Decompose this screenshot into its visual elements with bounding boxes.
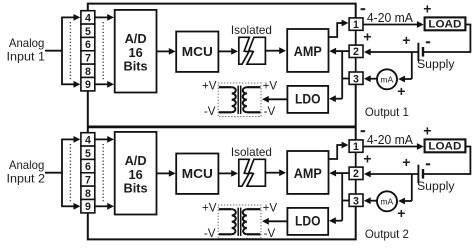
output terminal pin 3 ch2 (349, 194, 363, 208)
wire AMP output to terminal 1 ch1 (329, 23, 342, 37)
wire terminal 3 to branch ch2 (342, 200, 349, 202)
svg-text:4: 4 (85, 12, 91, 24)
svg-text:+: + (423, 122, 431, 138)
wire supply to meter ch1 (404, 78, 412, 80)
wire A/D to MCU ch1 (157, 50, 170, 52)
wire shared mid rail terminal 3 ch1 to terminal 1 ch2 (355, 85, 357, 141)
svg-text:Analog: Analog (9, 37, 45, 50)
wire input branch vertical ch2 (61, 139, 63, 206)
wire battery to terminal 2 ch2 (370, 173, 418, 175)
wire LDO to transformer ch1 (268, 98, 288, 100)
output terminal pin 2 ch2 (349, 167, 363, 180)
wire LOAD to battery ch1 (424, 25, 471, 53)
output terminal pin 1 ch1 (349, 18, 363, 31)
svg-text:8: 8 (85, 188, 91, 200)
wire terminal 1 to LOAD ch2 (363, 146, 418, 148)
wire AMP output to terminal 1 ch2 (329, 145, 342, 159)
LDO regulator block ch2 (287, 208, 328, 235)
svg-text:2: 2 (353, 168, 359, 180)
svg-text:Analog: Analog (9, 159, 45, 172)
svg-text:1: 1 (353, 141, 359, 153)
svg-text:4-20 mA: 4-20 mA (367, 133, 414, 147)
wire pin4 to A/D ch1 (95, 16, 108, 18)
input terminal pin 6 ch1 (81, 37, 95, 51)
svg-text:Supply: Supply (417, 57, 455, 71)
LDO regulator block ch1 (287, 86, 328, 113)
wire input stub ch2 (45, 172, 63, 174)
svg-text:Supply: Supply (417, 179, 455, 193)
input terminal pin 5 ch2 (81, 146, 95, 160)
dotted expansion line left ch2 (69, 144, 71, 203)
input terminal pin 8 ch2 (81, 186, 95, 200)
wire terminal 3 to branch ch1 (342, 78, 349, 80)
input terminal pin 4 ch1 (81, 11, 95, 25)
svg-text:A/D: A/D (125, 153, 147, 168)
svg-text:5: 5 (85, 148, 91, 160)
wire A/D to MCU ch2 (157, 172, 170, 174)
svg-text:+: + (402, 154, 410, 170)
svg-text:Output 1: Output 1 (365, 105, 409, 119)
wire branch to LDO ch2 (335, 220, 342, 222)
polarity minus terminal 1 ch2 (361, 130, 366, 132)
svg-text:Bits: Bits (124, 180, 148, 195)
svg-text:+V: +V (202, 79, 217, 92)
wire arrow into pin 4 ch1 (61, 16, 74, 18)
svg-text:LDO: LDO (295, 213, 321, 228)
wire supply branch vertical ch1 (341, 51, 343, 99)
LOAD block ch1 (425, 17, 466, 30)
wire supply branch vertical ch2 (341, 173, 343, 221)
A/D converter block U11 (115, 10, 157, 93)
wire supply to meter vertical ch1 (411, 52, 413, 79)
svg-text:6: 6 (85, 161, 91, 173)
svg-text:+V: +V (263, 79, 278, 92)
svg-text:+: + (397, 83, 405, 99)
wire pin4 to A/D ch2 (95, 138, 108, 140)
wire meter to terminal 3 ch1 (370, 78, 378, 80)
dotted expansion line right ch2 (102, 144, 104, 203)
ammeter mA ch2 (377, 191, 397, 211)
svg-text:9: 9 (85, 79, 91, 91)
amplifier block AMP ch2 (287, 151, 328, 194)
svg-text:+: + (363, 150, 371, 166)
svg-text:Isolated: Isolated (231, 145, 272, 159)
wire arrow into terminal 1 ch2 (340, 144, 343, 146)
svg-text:Output 2: Output 2 (365, 227, 409, 241)
input terminal pin 4 ch2 (81, 133, 95, 147)
wire terminal 2-3 link ch1 (355, 58, 357, 73)
wire arrow into terminal 1 ch1 (340, 22, 343, 24)
input terminal pin 9 ch1 (81, 77, 95, 91)
DC/DC transformer T2 dotted enclosure (218, 205, 261, 239)
wire shared mid rail horizontal (88, 126, 356, 129)
transformer T2 windings and core (219, 208, 261, 236)
svg-text:Input 2: Input 2 (7, 173, 46, 186)
svg-text:-V: -V (264, 105, 276, 118)
wire channel 1 top rail pin4 to terminal 1 (88, 4, 356, 19)
svg-text:AMP: AMP (294, 44, 322, 59)
svg-text:MCU: MCU (182, 44, 213, 59)
svg-text:Bits: Bits (124, 58, 148, 73)
output terminal pin 2 ch1 (349, 45, 363, 58)
wire LOAD to battery ch2 (424, 147, 471, 175)
wire terminal 1-2 link ch1 (355, 30, 357, 45)
A/D converter block U21 (115, 132, 157, 215)
svg-text:3: 3 (353, 74, 359, 86)
wire supply to meter vertical ch2 (411, 174, 413, 201)
output terminal pin 1 ch2 (349, 140, 363, 153)
isolation barrier symbol ch1 (239, 37, 266, 64)
svg-text:4-20 mA: 4-20 mA (367, 11, 414, 25)
LOAD block ch2 (425, 139, 466, 152)
net label Analog Input 1 (7, 37, 46, 64)
wire meter to terminal 3 ch2 (370, 200, 378, 202)
MCU block U12 (176, 32, 218, 72)
wire pin9 to A/D ch2 (95, 205, 108, 207)
svg-text:7: 7 (85, 174, 91, 186)
svg-text:+: + (423, 0, 431, 16)
svg-text:Input 1: Input 1 (7, 51, 46, 64)
svg-text:-V: -V (264, 227, 276, 240)
svg-text:LOAD: LOAD (428, 140, 461, 152)
wire arrow into pin 9 ch1 (61, 83, 74, 85)
svg-text:LOAD: LOAD (428, 18, 461, 30)
svg-text:LDO: LDO (295, 91, 321, 106)
svg-text:mA: mA (380, 74, 393, 84)
svg-text:4: 4 (85, 134, 91, 146)
isolation barrier symbol ch2 (239, 159, 266, 186)
wire terminal 2 to AMP ch2 (335, 172, 349, 174)
MCU block U22 (176, 154, 218, 194)
svg-text:3: 3 (353, 196, 359, 208)
output terminal pin 3 ch1 (349, 72, 363, 86)
dotted expansion line right ch1 (102, 22, 104, 81)
wire supply to meter ch2 (404, 200, 412, 202)
svg-text:6: 6 (85, 39, 91, 51)
svg-text:+: + (363, 28, 371, 44)
DC/DC transformer T1 dotted enclosure (218, 83, 261, 117)
wire input branch vertical ch1 (61, 17, 63, 84)
svg-text:AMP: AMP (294, 166, 322, 181)
wire isolation to AMP ch2 (265, 172, 280, 174)
svg-text:-V: -V (204, 227, 216, 240)
wire terminal 2 to AMP ch1 (335, 50, 349, 52)
polarity minus battery ch2 (426, 163, 430, 165)
wire branch to LDO ch1 (335, 98, 342, 100)
svg-text:MCU: MCU (182, 166, 213, 181)
battery supply BT2 plates (418, 165, 423, 183)
wire terminal 1 to LOAD ch1 (363, 24, 418, 26)
svg-text:5: 5 (85, 26, 91, 38)
wire arrow into pin 9 ch2 (61, 205, 74, 207)
svg-text:+: + (402, 32, 410, 48)
wire input stub ch1 (45, 50, 63, 52)
svg-text:1: 1 (353, 19, 359, 31)
svg-text:-V: -V (204, 105, 216, 118)
input terminal pin 8 ch1 (81, 64, 95, 78)
svg-text:A/D: A/D (125, 31, 147, 46)
svg-text:Isolated: Isolated (231, 23, 272, 37)
polarity minus terminal 1 ch1 (361, 8, 366, 10)
wire shared mid rail ch1 pin9 / ch2 pin4 (87, 91, 89, 134)
svg-text:mA: mA (380, 196, 393, 206)
input terminal pin 9 ch2 (81, 199, 95, 213)
battery supply BT1 plates (418, 43, 423, 61)
amplifier block AMP ch1 (287, 29, 328, 72)
wire terminal 2-3 link ch2 (355, 180, 357, 195)
input terminal pin 6 ch2 (81, 159, 95, 173)
svg-text:9: 9 (85, 201, 91, 213)
wire channel 2 bottom rail pin9 to terminal 3 (88, 207, 356, 240)
dotted expansion line left ch1 (69, 22, 71, 81)
wire pin9 to A/D ch1 (95, 83, 108, 85)
wire terminal 1-2 link ch2 (355, 152, 357, 167)
input terminal pin 7 ch1 (81, 51, 95, 65)
wire arrow into pin 4 ch2 (61, 138, 74, 140)
svg-text:+: + (397, 205, 405, 221)
wire MCU to isolation ch2 (218, 172, 232, 174)
svg-text:8: 8 (85, 66, 91, 78)
wire battery to terminal 2 ch1 (370, 51, 418, 53)
ammeter mA ch1 (377, 69, 397, 89)
wire LDO to transformer ch2 (268, 220, 288, 222)
svg-text:+V: +V (263, 201, 278, 214)
svg-text:+V: +V (202, 201, 217, 214)
wire MCU to isolation ch1 (218, 50, 232, 52)
polarity minus battery ch1 (426, 41, 430, 43)
net label Analog Input 2 (7, 159, 46, 186)
input terminal pin 7 ch2 (81, 173, 95, 187)
input terminal pin 5 ch1 (81, 24, 95, 38)
wire isolation to AMP ch1 (265, 50, 280, 52)
svg-text:7: 7 (85, 52, 91, 64)
svg-text:2: 2 (353, 46, 359, 58)
transformer T1 windings and core (219, 86, 261, 114)
